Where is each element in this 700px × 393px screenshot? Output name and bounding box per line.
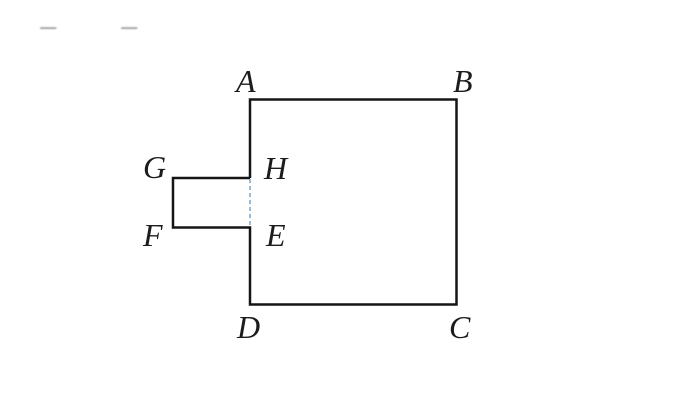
svg-text:A: A [234,63,256,99]
dashed segment H-E [249,179,251,227]
svg-text:D: D [236,309,260,345]
svg-text:H: H [263,150,289,186]
polygon outline ABCD with notch rectangle GFEH [173,100,457,305]
svg-text:E: E [265,217,286,253]
stray mark 1 (grey dash top-left) [40,27,57,29]
svg-text:F: F [142,217,163,253]
stray mark 2 (grey dash top-left) [121,27,138,29]
svg-text:B: B [453,63,473,99]
svg-text:C: C [449,309,471,345]
svg-text:G: G [143,149,166,185]
